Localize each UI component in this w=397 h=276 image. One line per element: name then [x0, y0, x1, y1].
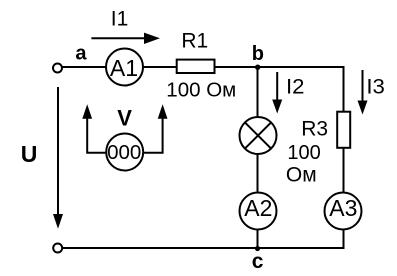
voltmeter right lead wire — [144, 117, 163, 153]
current arrow I3 — [358, 70, 368, 115]
svg-text:100 Ом: 100 Ом — [166, 78, 236, 101]
wire node b down to lamp — [257, 67, 259, 118]
svg-text:A2: A2 — [244, 195, 272, 221]
ammeter A2 — [240, 193, 277, 230]
voltmeter left lead wire — [87, 117, 105, 153]
wire A1 to R1 — [143, 66, 177, 68]
voltmeter left lead arrowhead — [82, 104, 92, 119]
svg-text:000: 000 — [107, 141, 141, 164]
svg-text:I3: I3 — [366, 75, 385, 98]
resistor R3 — [301, 112, 350, 148]
node b — [252, 43, 264, 70]
svg-text:U: U — [21, 141, 38, 167]
bottom wire — [62, 247, 345, 249]
svg-text:R1: R1 — [181, 30, 208, 53]
svg-text:A1: A1 — [110, 55, 138, 81]
svg-text:I2: I2 — [286, 75, 305, 98]
ammeter A1 — [106, 49, 143, 86]
svg-text:A3: A3 — [329, 195, 357, 221]
lamp EL1 — [240, 117, 277, 154]
voltmeter right lead arrowhead — [158, 104, 168, 119]
wire right corner down to R3 — [343, 66, 345, 112]
current arrow I2 — [272, 72, 282, 114]
svg-text:Ом: Ом — [286, 163, 317, 186]
resistor R1 — [177, 30, 215, 74]
svg-text:V: V — [117, 105, 132, 130]
svg-text:b: b — [252, 43, 264, 65]
wire terminal-a to A1 — [62, 66, 106, 68]
svg-text:R3: R3 — [301, 117, 328, 140]
wire A3 to bottom wire — [343, 230, 345, 250]
terminal top-left input — [53, 64, 62, 73]
voltmeter V — [106, 134, 143, 171]
current arrow I1 — [91, 33, 160, 44]
svg-text:100: 100 — [287, 142, 320, 164]
svg-text:I1: I1 — [111, 7, 129, 30]
svg-text:c: c — [252, 250, 264, 273]
wire A2 to bottom wire — [257, 230, 259, 249]
wire lamp to A2 — [257, 154, 259, 193]
terminal bottom-left input — [53, 244, 62, 253]
voltage arrow U — [53, 87, 63, 229]
wire R3 to A3 — [343, 148, 345, 193]
ammeter A3 — [325, 193, 362, 230]
wire R1 to right corner through node b — [215, 66, 344, 68]
svg-text:a: a — [75, 43, 87, 65]
node c — [252, 246, 264, 273]
